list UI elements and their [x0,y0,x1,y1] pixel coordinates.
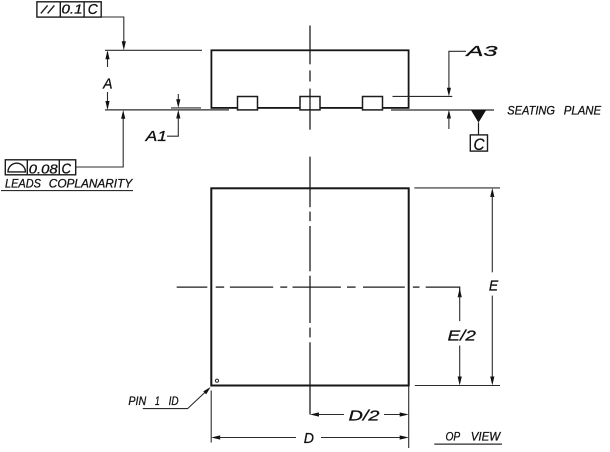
coplanarity leader [76,118,124,167]
lead 2 (center, side view) [300,97,320,110]
svg-text:OP: OP [446,430,461,444]
lead 3 (right, side view) [363,97,383,110]
package body outline (side view) [211,50,408,108]
svg-text:D/2: D/2 [349,407,381,424]
package body outline (top view square) [211,188,408,385]
dimension A line [107,52,109,67]
horizontal centerline (top view) [177,286,420,288]
parallelism leader [101,17,124,43]
A1 lower arrow (up to seating plane) and leader [176,110,180,119]
E/D bottom extension line [415,385,500,387]
leads coplanarity feature control frame [5,160,75,175]
vertical centerline (top view) [309,157,311,415]
svg-text:C: C [474,136,485,154]
datum C triangle on seating plane [471,110,486,123]
vertical centerline (side view) [309,26,311,130]
svg-text:0.08: 0.08 [29,162,58,176]
pin 1 ID marker circle [215,379,218,382]
E/2 extension corner [426,287,460,296]
svg-text:A1: A1 [144,128,167,145]
dimension E line [490,188,494,197]
parallelism feature control frame [37,2,101,17]
lead 1 (left, side view) [238,97,258,110]
dimension D line [211,435,220,439]
svg-text:PIN: PIN [128,394,146,408]
A3 extension line (lead top level) [393,95,453,97]
PIN 1 ID leader [143,392,205,409]
D left extension line [210,391,212,443]
package bottom extension (A1) [171,107,201,109]
svg-text:A: A [102,76,112,93]
E top extension line [414,187,500,189]
underline [1,190,133,192]
svg-text:PLANE: PLANE [564,104,602,118]
svg-text:E/2: E/2 [448,327,477,344]
datum C box [470,135,487,151]
dimension A arrow down [105,101,109,110]
svg-text:COPLANARITY: COPLANARITY [49,177,133,191]
svg-text:1: 1 [155,394,160,408]
seating plane line [105,109,229,111]
svg-text:SEATING: SEATING [507,104,555,118]
svg-text:VIEW: VIEW [471,430,502,444]
svg-text:C: C [62,162,72,178]
A1 upper arrow (down to package bottom) [177,94,179,100]
svg-text:E: E [489,278,499,295]
svg-text:C: C [88,2,98,18]
A3 lower arrow [447,110,451,119]
svg-text:0.1: 0.1 [62,3,83,17]
svg-text:ID: ID [169,394,179,408]
svg-text:A3: A3 [465,43,499,60]
D right extension line [408,386,410,448]
dimension A arrow up [105,50,109,59]
dimension D/2 line [310,412,319,416]
extension line, package top left [105,49,202,51]
svg-text:D: D [304,430,314,447]
dimension E/2 line [458,288,462,297]
datum stem [478,123,480,135]
A3 upper leader and arrow [449,51,466,88]
svg-text:LEADS: LEADS [5,177,41,191]
